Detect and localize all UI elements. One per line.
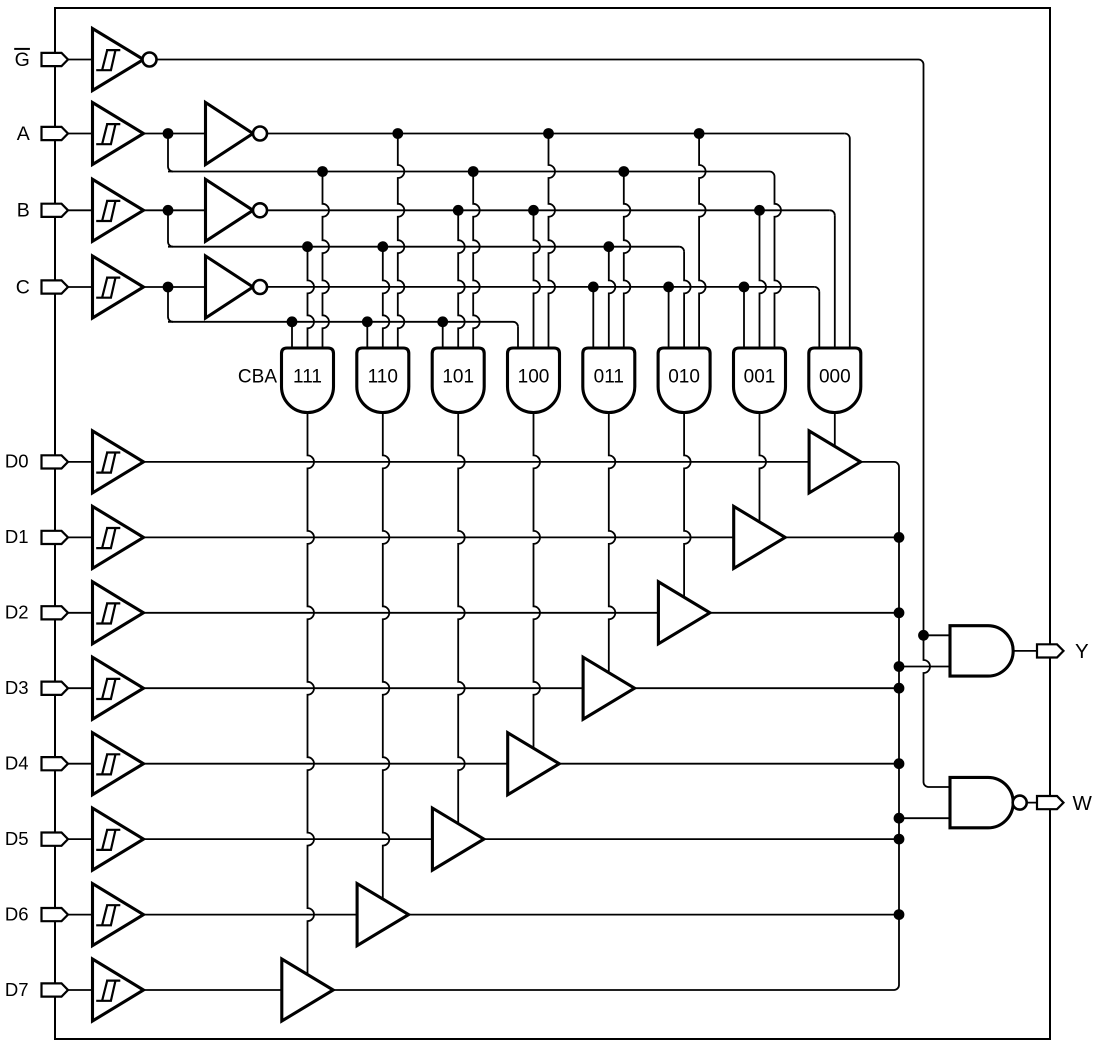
svg-text:110: 110 [368,367,398,388]
svg-text:D6: D6 [5,903,29,924]
svg-text:CBA: CBA [238,367,277,388]
svg-text:D2: D2 [5,602,29,623]
svg-text:Y: Y [1075,640,1089,663]
svg-text:D4: D4 [5,753,29,774]
svg-text:D3: D3 [5,677,29,698]
svg-text:D5: D5 [5,828,29,849]
svg-text:D1: D1 [5,526,29,547]
svg-text:001: 001 [744,367,776,388]
svg-text:G: G [15,49,30,71]
svg-text:D7: D7 [5,979,29,1000]
svg-text:000: 000 [819,367,851,388]
svg-text:W: W [1073,792,1093,815]
svg-text:D0: D0 [5,451,29,472]
svg-text:101: 101 [442,367,474,388]
svg-text:C: C [16,276,30,298]
svg-text:111: 111 [293,367,322,388]
svg-text:B: B [17,200,30,222]
svg-text:A: A [17,123,30,145]
svg-text:010: 010 [668,367,700,388]
svg-text:011: 011 [594,367,624,388]
svg-text:100: 100 [518,367,550,388]
